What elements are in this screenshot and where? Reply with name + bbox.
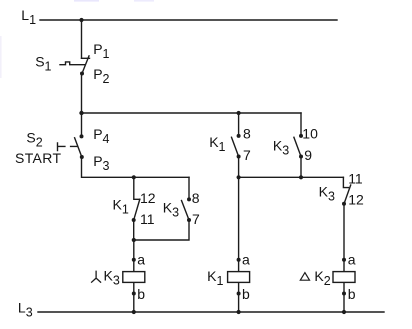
svg-text:S2: S2 [26,130,42,150]
svg-text:a: a [242,251,250,267]
node K3 contact 8 [187,197,191,201]
svg-text:P4: P4 [93,126,109,146]
svg-text:8: 8 [192,190,200,206]
junction rail/top branch [79,111,83,115]
node coil K3 terminal a [132,258,136,262]
svg-text:a: a [348,251,356,267]
junction K1 branch/right rung [237,175,241,179]
contact K1 12-11 blade [134,199,140,220]
contact K3 8-7 top lead [188,177,190,199]
svg-text:12: 12 [348,192,364,208]
wire L1 bus [40,19,337,21]
svg-text:a: a [137,251,145,267]
wire right rung horizontal [239,176,344,178]
svg-text:P1: P1 [93,41,109,61]
node coil K3 terminal b [132,292,136,296]
junction left rung/K1 contact [132,175,136,179]
node coil K2 terminal b [342,292,346,296]
coil K1 box [228,272,250,283]
svg-text:b: b [137,286,145,302]
svg-text:S1: S1 [35,54,51,74]
contact K3 8-7 blade [182,201,190,221]
svg-text:12: 12 [140,190,156,206]
svg-text:K3: K3 [163,200,179,220]
wire top branch horizontal [82,112,302,114]
wire K3 10-9 to right rung [300,157,302,178]
svg-text:K3: K3 [319,183,335,203]
svg-text:7: 7 [243,147,251,163]
node K1 contact 11 [132,218,136,222]
scan artifact top streak 1 [74,0,99,2]
svg-text:b: b [348,286,356,302]
svg-text:K3: K3 [273,138,289,158]
contact K3 11-12 blade [344,185,351,204]
junction bottom link [132,238,136,242]
wire rail from L1 to S1 [81,20,83,58]
scan artifact left strip [0,36,2,78]
wire K1 branch top [238,113,240,136]
wire S1 to branch node [81,74,83,114]
pushbutton S1 actuator [60,62,84,65]
junction coil K2/L3 [342,310,346,314]
scan artifact top streak 2 [134,0,154,2]
svg-text:START: START [15,150,61,166]
contact S1 blade [82,56,89,74]
wire to coil K2 [343,204,345,312]
contact K3 11-12 top lead and seat [343,177,348,187]
svg-text:P2: P2 [93,66,109,86]
node S1 bottom terminal [80,72,84,76]
pushbutton S2 actuator [58,143,78,151]
star symbol [92,271,101,282]
svg-text:10: 10 [302,126,318,142]
svg-text:P3: P3 [93,153,109,173]
coil K2 box [333,272,355,283]
contact K3 10-9 blade [294,137,301,156]
wire to coil K3 [133,240,135,312]
node S2 P4 terminal [80,134,84,138]
node K3 contact 12 [342,202,346,206]
node K3 contact 7 [187,218,191,222]
svg-text:K1: K1 [207,268,223,288]
wire branch node to S2 [81,113,83,136]
node K1 contact 8 [237,134,241,138]
svg-text:11: 11 [140,211,155,227]
coil K3 box [123,272,145,283]
wire bottom link left rung [134,220,189,240]
delta symbol [300,273,309,281]
node K1 contact 7 [237,155,241,159]
node K3 contact 9 [299,155,303,159]
svg-text:K2: K2 [314,268,330,288]
junction coil K3/L3 [132,310,136,314]
node coil K2 terminal a [342,258,346,262]
wire S2 to left rung [82,157,190,177]
svg-text:8: 8 [243,126,251,142]
svg-text:b: b [242,286,250,302]
svg-text:11: 11 [348,170,363,186]
node coil K1 terminal a [237,258,241,262]
svg-text:7: 7 [192,211,200,227]
junction coil K1/L3 [237,310,241,314]
svg-text:L1: L1 [21,7,36,27]
wire K3 10-9 branch top [300,113,302,136]
junction top branch/K1 branch [237,111,241,115]
wire K1 branch to coil K1 [238,157,240,313]
svg-text:K3: K3 [104,267,120,287]
svg-text:K1: K1 [113,197,129,217]
wire K1 contact to bottom link [133,220,135,240]
svg-text:L3: L3 [18,299,33,319]
contact K1 12-11 top lead [134,177,140,199]
contact S2 blade [75,138,82,157]
node coil K1 terminal b [237,292,241,296]
svg-text:K1: K1 [209,134,225,154]
contact S1 seat tick [82,57,90,59]
node K3 contact 10 [299,134,303,138]
wire L3 bus [38,311,384,313]
junction L1/rail [79,18,83,22]
junction K3 branch/right rung [299,175,303,179]
node S2 P3 terminal [80,155,84,159]
contact K1 8-7 blade [232,137,239,156]
svg-text:9: 9 [304,147,312,163]
